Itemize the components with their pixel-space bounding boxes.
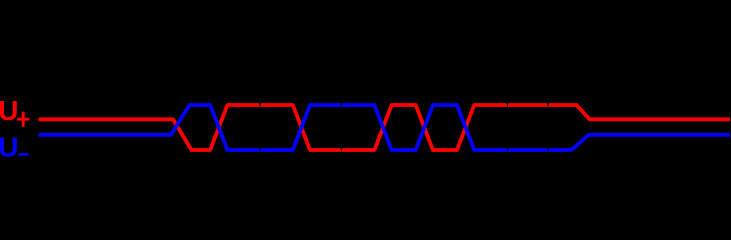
tick boundary k4 bottom (340, 148, 342, 152)
wire U- trace (blue) (39, 105, 731, 150)
svg-text:U: U (0, 95, 18, 126)
svg-text:U: U (0, 131, 18, 162)
wire U+ trace (red) (39, 105, 731, 150)
tick boundary k2 top (259, 103, 261, 107)
tick boundary k2 bottom (259, 148, 261, 152)
label U+ (red) (0, 95, 29, 127)
tick boundary k9 top (547, 103, 549, 107)
label U- (blue) (0, 131, 28, 162)
tick boundary k8 top (506, 103, 508, 107)
tick boundary k4 top (340, 103, 342, 107)
tick boundary k8 bottom (506, 148, 508, 152)
tick boundary k9 bottom (547, 148, 549, 152)
